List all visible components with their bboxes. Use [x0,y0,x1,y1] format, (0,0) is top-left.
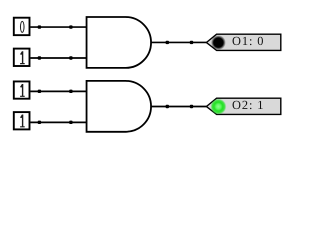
svg-text:O1: 0: O1: 0 [232,34,264,48]
junction dot on wire IN1-U1.A (right) [69,25,72,28]
junction dot on wire IN3-U2.A (right) [69,90,72,93]
value label O1: 0 [232,34,264,48]
value label IN2 = 1 [20,51,25,64]
junction dot on wire U2-O2 (left) [166,105,169,108]
input pin IN2 (value 1) [14,49,30,66]
LED indicator O2 (on, green) [210,99,226,115]
junction dot on wire IN1-U1.A (left) [38,25,41,28]
junction dot on wire IN2-U1.B (right) [69,56,72,59]
wire U2 output to O2 [151,106,207,108]
junction dot on wire U1-O1 (left) [166,41,169,44]
input pin IN1 (value 0) [14,18,30,35]
junction dot on wire IN4-U2.B (right) [69,121,72,124]
wire U1 output to O1 [151,41,207,43]
AND gate U2 [87,81,152,132]
value label IN4 = 1 [20,115,25,128]
input pin IN4 (value 1) [14,112,30,129]
value label O2: 1 [232,98,264,112]
LED indicator O1 (off, black) [211,35,226,50]
junction dot on wire U1-O1 (right) [190,41,193,44]
wire IN2 to U1 input B [30,57,86,59]
svg-text:O2: 1: O2: 1 [232,98,264,112]
AND gate U1 [87,17,152,68]
junction dot on wire IN4-U2.B (left) [38,121,41,124]
junction dot on wire IN2-U1.B (left) [38,56,41,59]
output probe O2 (tag body) [206,98,280,114]
wire IN3 to U2 input A [30,90,86,92]
value label IN3 = 1 [20,84,25,97]
wire IN1 to U1 input A [30,26,86,28]
junction dot on wire U2-O2 (right) [190,105,193,108]
value label IN1 = 0 [20,21,25,33]
wire IN4 to U2 input B [30,121,86,123]
input pin IN3 (value 1) [14,81,30,98]
output probe O1 (tag body) [206,34,280,50]
junction dot on wire IN3-U2.A (left) [38,90,41,93]
